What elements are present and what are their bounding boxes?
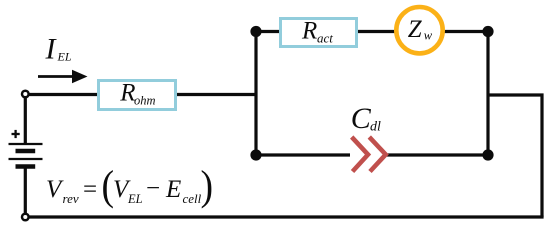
svg-text:V: V (46, 176, 64, 203)
label R_ohm (119, 80, 155, 108)
svg-text:C: C (351, 102, 372, 135)
impedance Z_w (Warburg element) (396, 7, 442, 53)
label C_dl (351, 102, 381, 135)
wire: bottom return rail (25, 215, 544, 218)
battery V (two-cell symbol) (9, 144, 43, 167)
label R_act (301, 18, 333, 46)
svg-text:−: − (146, 175, 160, 202)
node: junction dot bottom-left (250, 149, 261, 160)
svg-text:rev: rev (63, 191, 79, 206)
svg-text:EL: EL (127, 192, 143, 206)
node: junction dot top-right (482, 26, 493, 37)
wire: right vertical branch riser (486, 32, 489, 156)
wire: bottom branch right segment (385, 153, 488, 156)
wire: bottom branch left segment (256, 153, 350, 156)
svg-text:I: I (45, 33, 58, 66)
resistor R_act (281, 19, 357, 47)
wire: left vertical branch riser (254, 32, 257, 156)
svg-text:=: = (83, 176, 97, 203)
node: junction dot bottom-right (482, 149, 493, 160)
label Z_w (408, 16, 433, 43)
svg-text:act: act (317, 31, 333, 46)
wire: battery bottom lead (24, 167, 27, 217)
svg-text:Z: Z (408, 16, 423, 43)
battery plus sign (12, 130, 20, 138)
svg-text:w: w (424, 29, 433, 43)
arrow: current direction (38, 70, 88, 83)
node: battery negative open terminal (22, 214, 29, 221)
wire: main horizontal from battery terminal to left node (27, 93, 256, 96)
label I_EL (45, 33, 72, 66)
svg-text:EL: EL (57, 50, 72, 64)
svg-text:cell: cell (183, 191, 202, 206)
wire: top branch (256, 30, 488, 33)
node: junction dot top-left (250, 26, 261, 37)
svg-text:ohm: ohm (134, 94, 156, 108)
wire: battery top lead (24, 95, 27, 144)
svg-text:): ) (201, 162, 214, 209)
wire: output stub to right edge (488, 95, 542, 217)
svg-text:dl: dl (370, 120, 381, 135)
svg-text:R: R (301, 18, 317, 45)
svg-text:E: E (165, 176, 181, 203)
capacitor C_dl (double-chevron symbol) (352, 137, 386, 172)
node: battery positive open terminal (22, 91, 29, 98)
resistor R_ohm (99, 81, 176, 110)
label V_rev = (V_EL - E_cell) equation (46, 162, 213, 209)
